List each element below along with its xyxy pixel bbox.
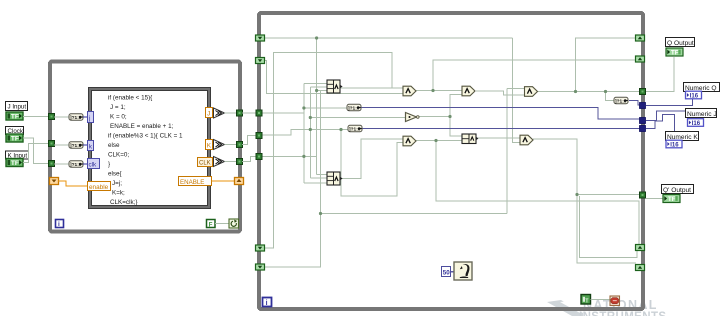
tunnel Q' output [640, 192, 646, 198]
Clock boolean terminal [6, 134, 23, 143]
wire T1b J in [260, 112, 304, 114]
wire NOT out junction [419, 117, 462, 137]
stop boolean terminal [581, 295, 591, 305]
formula node frame [89, 88, 211, 209]
shift register SR3 left [256, 245, 265, 251]
wire G4 out to CA3.in2 [416, 140, 462, 142]
wire C2 out to Numeric K tunnel [362, 128, 640, 130]
wire x507 vertical [506, 89, 508, 214]
shift register SR up2 right [636, 56, 645, 62]
formula node input j [88, 112, 94, 123]
wire C1 out to Numeric J tunnel [361, 108, 640, 120]
svg-text:if (enable%3 < 1){ CLK = 1: if (enable%3 < 1){ CLK = 1 [108, 133, 183, 140]
wire 50 to wait [451, 271, 454, 273]
wire G3 out to Q tunnel [538, 91, 640, 93]
wire triangle3 to tunnel [225, 161, 240, 163]
boolean-to-01 converter C3 [614, 97, 628, 104]
wire G1 branch up to SR up2 [433, 60, 635, 91]
svg-text:else: else [108, 142, 120, 149]
while loop 2 (main) [259, 13, 643, 309]
shift register SR1 left (Q) [256, 35, 265, 41]
K Input boolean terminal [6, 159, 23, 168]
wire Q' net down to SR low [577, 195, 636, 264]
boolean-to-01 converter 3 [69, 161, 83, 168]
AND gate G4 [403, 136, 416, 146]
formula node output J [206, 108, 213, 118]
AND gate G3 [525, 87, 538, 97]
AND gate G1 [403, 86, 416, 96]
svg-text:K = 0;: K = 0; [110, 114, 127, 121]
wire K branch down to G4.in2 [341, 130, 403, 197]
svg-text:else{: else{ [108, 171, 122, 178]
svg-text:ENABLE: ENABLE [180, 179, 204, 186]
wire C3 out to Numeric Q tunnel [629, 101, 640, 106]
junction dots [302, 36, 607, 215]
wire tunnel J between loops [242, 112, 257, 114]
tunnel Numeric K (blue) [640, 126, 646, 132]
wire second rail to SR upper [580, 196, 638, 258]
AND gate G5 [520, 135, 533, 145]
svg-text:j: j [88, 115, 90, 122]
J Input boolean terminal [6, 112, 23, 121]
compound AND CA1 [327, 80, 343, 93]
shift register SR up4 right [636, 265, 645, 271]
Q' Output label [662, 185, 694, 194]
wire T2b K to C2 [260, 130, 348, 136]
wire G4 net down to y201 [436, 141, 639, 245]
tunnel Numeric J (blue) [640, 118, 646, 124]
wire tunnel K between loops [242, 136, 257, 145]
AND gate G2 [462, 86, 475, 96]
loop2 condition terminal (stop sign) [610, 296, 620, 306]
wire Clock to clk tunnel (crosses down) [23, 138, 50, 164]
shift register SR up3 right [636, 245, 645, 251]
wire G2 out to G3.in2 [476, 91, 524, 95]
svg-text:J: J [207, 111, 210, 118]
svg-text:if (enable < 15){: if (enable < 15){ [108, 95, 152, 102]
shift register SR4 left [256, 264, 265, 270]
while loop 1 (clock generator) [50, 62, 240, 232]
wire y213 SR4 to x507 [321, 213, 508, 215]
blue numeric wires [361, 101, 640, 129]
svg-text:T: T [585, 298, 588, 304]
orange shift register right (enable) [235, 178, 244, 185]
tunnel K out on loop1 right edge [237, 142, 243, 148]
Q Output label [666, 38, 695, 47]
boolean-to-01 converter C1 [347, 104, 361, 111]
wire G1 out to G2 [416, 90, 462, 92]
Clock control label [6, 127, 24, 136]
svg-text:Q' Output: Q' Output [663, 187, 691, 194]
formula node output ENABLE [179, 177, 212, 186]
wire Q net down to C3 [606, 92, 615, 101]
wire SR4 riser [265, 91, 321, 268]
svg-text:clk: clk [89, 162, 98, 169]
wire Numeric J [646, 111, 686, 121]
svg-text:Q Output: Q Output [667, 40, 694, 47]
svg-text:J Input: J Input [8, 104, 27, 111]
wire tunnel clk to converter [54, 144, 69, 146]
svg-text:ENABLE = enable + 1;: ENABLE = enable + 1; [110, 123, 174, 130]
Q Output TF indicator [666, 48, 683, 57]
wire SR3 loop top to G1.in1 [265, 53, 403, 249]
shift register SR2 left (Q') [256, 58, 265, 64]
wire CA2 out to G4.in1 [340, 139, 403, 179]
not-equal-zero triangle 2 [214, 140, 225, 150]
boolean-to-01 converter C2 [348, 125, 362, 132]
wire CA1 out to G1.in1 [340, 87, 392, 89]
svg-text:J = 1;: J = 1; [110, 104, 126, 111]
wire K Input to k tunnel (crosses up) [23, 144, 50, 163]
tunnel Numeric Q (blue) [640, 103, 646, 109]
tunnel T3b CLK input [256, 154, 262, 160]
wire tunnel J to converter [54, 116, 69, 118]
iteration terminal i loop2 [263, 298, 272, 307]
tunnel CLK out on loop1 right edge [237, 159, 243, 165]
tunnel T1b J input [256, 110, 262, 116]
wire SR1 Q across top [265, 37, 513, 39]
wire converter1 to j terminal [83, 116, 88, 118]
wire enable from shift register to formula node [58, 181, 88, 186]
svg-text:K: K [207, 143, 212, 150]
Numeric J label [686, 109, 717, 118]
formula node output K [206, 140, 213, 150]
Q' Output TF indicator [663, 195, 680, 204]
svg-text:CLK=0;: CLK=0; [108, 152, 129, 159]
svg-text:CLK: CLK [199, 161, 211, 167]
wire G5 out to Q' tunnel [533, 139, 640, 195]
tunnel J out on loop1 right edge [237, 110, 243, 116]
tunnel clk-in on loop1 left edge [49, 141, 55, 147]
orange shift register left (enable) [50, 178, 59, 185]
loop1 condition terminal [229, 219, 239, 228]
boolean-to-01 converter 2 [69, 142, 83, 149]
wire Q Output from tunnel [646, 57, 674, 92]
formula node input k [88, 141, 94, 151]
boolean-to-01 converter 1 [69, 114, 83, 121]
not-equal-zero triangle 1 [214, 108, 225, 118]
formula node output CLK [198, 158, 213, 167]
Numeric K I16 indicator [666, 140, 682, 148]
formula node input enable [88, 182, 111, 192]
wire converter3 to clk terminal [83, 163, 88, 165]
svg-text:J=j;: J=j; [112, 180, 122, 187]
wire triangle1 to tunnel [225, 112, 240, 114]
wire SR2 Qp to G1.in2 [265, 61, 403, 94]
wire Numeric Q [646, 98, 693, 106]
wire F to loop condition [215, 223, 229, 225]
compound AND CA3 [462, 134, 478, 144]
wire riser A (J/C1/CA1.in1/CA2.in3 column) [303, 84, 305, 184]
wire Numeric K [646, 115, 675, 132]
tunnel Q output [640, 89, 646, 95]
compound AND CA2 [327, 172, 343, 185]
svg-text:enable: enable [89, 184, 109, 191]
tunnel T2b K input [256, 133, 262, 139]
big loop wires (green boolean) [260, 38, 640, 267]
wire Q drop to G5.in2 [513, 38, 522, 143]
not-equal-zero triangle 3 [214, 157, 225, 167]
svg-text:i: i [58, 221, 60, 228]
svg-text:CLK=clk;}: CLK=clk;} [110, 199, 137, 206]
wire NOT net up to G2.in2 [450, 95, 462, 117]
wire tunnel CLK between loops [242, 157, 257, 162]
wait (ms) function metronome [454, 262, 472, 280]
National Instruments watermark [547, 298, 666, 316]
J Input control label [6, 102, 28, 111]
svg-text:50: 50 [443, 270, 450, 277]
boolean constant F [207, 220, 216, 229]
wire ENABLE to right shift register [212, 180, 235, 182]
wire converter2 to k terminal [83, 144, 88, 146]
wire riser C (Q column CA1.in3/CA2.in1) [316, 38, 318, 175]
formula node code text [108, 95, 183, 207]
wire CA3 out to G5.in1 [476, 137, 521, 139]
wire triangle2 to tunnel [225, 144, 240, 146]
Numeric K label [666, 132, 699, 141]
svg-text:i: i [266, 300, 268, 307]
Numeric J I16 indicator [688, 119, 704, 127]
wire riser B (NOT/C2/CA1.in2/CA2.in2 column) [309, 87, 311, 178]
iteration terminal i loop1 [56, 220, 64, 229]
wire Q' Output from tunnel [646, 198, 663, 200]
formula node input clk [88, 159, 100, 169]
Numeric Q label [684, 83, 720, 92]
wire stop to condition [591, 299, 611, 301]
svg-text:K=k;: K=k; [112, 190, 125, 197]
wire Q net up to SR up1 [576, 38, 636, 92]
svg-text:F: F [209, 222, 213, 228]
wait ms constant 50 [442, 267, 451, 277]
NOT gate [406, 113, 420, 122]
tunnel J on loop1 left edge [49, 114, 55, 120]
wire G3.in1 from x507 [507, 88, 524, 90]
shift register SR up1 right [636, 35, 645, 41]
svg-text:INSTRUMENTS: INSTRUMENTS [579, 311, 666, 316]
K Input control label [6, 151, 29, 160]
wire T3b CLK in [260, 155, 317, 157]
Numeric Q I16 indicator [686, 91, 702, 99]
tunnel k-in on loop1 left edge [49, 161, 55, 167]
svg-text:Numeric J: Numeric J [687, 111, 717, 118]
wire tunnel k to converter [54, 163, 69, 165]
wire J Input to tunnel [23, 116, 50, 118]
svg-text:}: } [108, 161, 110, 168]
